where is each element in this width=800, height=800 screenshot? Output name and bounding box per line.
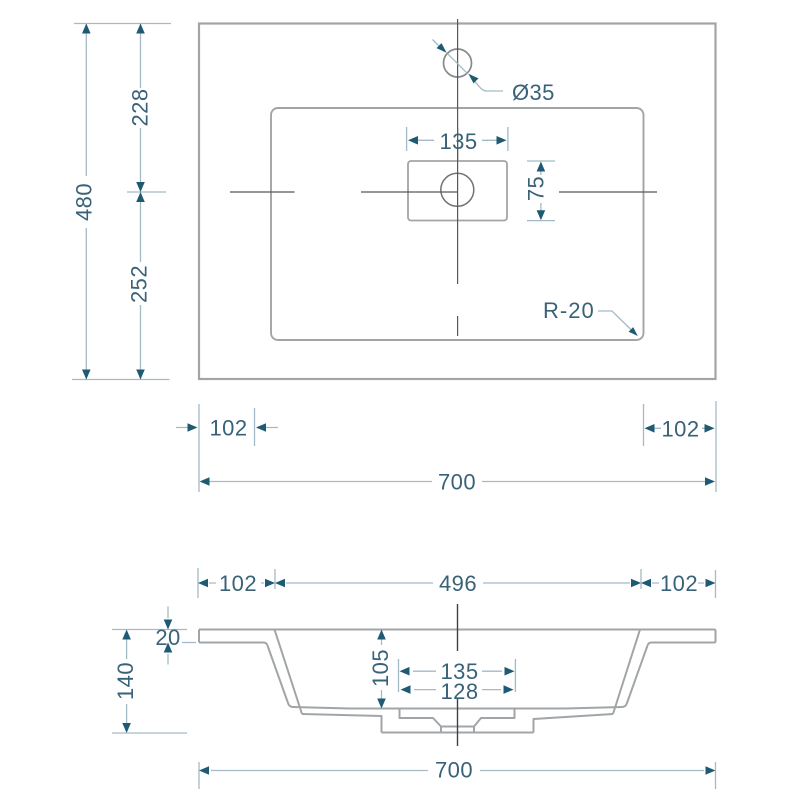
svg-text:135: 135 — [440, 129, 478, 154]
dim line 102 left (top view) — [176, 427, 278, 429]
dim line 20 — [167, 607, 169, 665]
svg-text:20: 20 — [155, 625, 180, 650]
interior bottom — [293, 707, 623, 709]
extension line bottom of top view — [72, 379, 170, 381]
arrows 75 — [537, 162, 546, 172]
arrows 135 top view — [408, 136, 418, 145]
svg-text:102: 102 — [662, 417, 700, 442]
extensions bottom 700 — [199, 762, 716, 789]
svg-text:140: 140 — [113, 662, 138, 700]
dimension graphics — [72, 24, 716, 493]
dim 75 extension ticks — [527, 161, 555, 221]
dim 135 extension lines (top view) — [407, 127, 508, 151]
dim line 700 (section) — [211, 770, 704, 772]
arrows 20 — [164, 620, 173, 630]
extension x=199 below rect — [198, 404, 200, 492]
bowtie at 641 — [631, 579, 641, 588]
exterior wall slant left — [275, 630, 303, 715]
svg-text:105: 105 — [368, 649, 393, 687]
drain recess rectangle — [408, 161, 507, 221]
svg-text:480: 480 — [72, 183, 97, 221]
dim line 135 (top view) — [411, 139, 504, 141]
dim line 102 right (top view) — [648, 427, 712, 429]
dim 135 extensions (section) — [399, 659, 516, 692]
inner bowl rounded rectangle — [271, 108, 644, 340]
dim line 252 — [140, 192, 142, 380]
svg-text:252: 252 — [127, 265, 152, 303]
under-rim left — [199, 643, 268, 646]
outer basin rectangle (top view) — [199, 24, 716, 380]
arrows 700 section — [199, 766, 209, 775]
arrows 228 — [136, 24, 145, 34]
under-rim right — [648, 643, 716, 646]
dim line 75 — [540, 165, 542, 217]
dim line 228 — [140, 24, 142, 193]
svg-text:75: 75 — [524, 176, 549, 201]
svg-text:Ø35: Ø35 — [512, 80, 555, 105]
arrows 135 section — [400, 667, 410, 676]
svg-text:102: 102 — [660, 571, 698, 596]
dim line 496 — [286, 582, 630, 584]
svg-text:102: 102 — [219, 571, 257, 596]
extension bottom-left (y=733) — [112, 732, 187, 734]
vertical centerline (top view) — [457, 19, 459, 336]
svg-text:700: 700 — [435, 758, 473, 783]
extension line top (y=23.5) — [74, 23, 171, 25]
centerline (section) — [457, 604, 459, 746]
arrows faucet leader — [437, 43, 447, 53]
arrow 102L section left — [198, 579, 208, 588]
extension x=643.5 — [643, 404, 645, 446]
extension x=716 — [715, 401, 717, 492]
arrows 102 right top view (inside pointing out) — [645, 424, 655, 433]
exterior bottom — [382, 732, 534, 734]
svg-text:496: 496 — [439, 571, 477, 596]
arrows 140 — [122, 630, 131, 640]
arrows 480 — [82, 24, 91, 34]
dim line 135 (section) — [413, 670, 502, 672]
right rim edge — [715, 630, 717, 643]
leader line for faucet hole — [433, 40, 504, 92]
leader line R-20 — [598, 311, 635, 334]
extension top-left (y=629.5) — [112, 629, 187, 631]
dim line 102 right (section) — [652, 582, 704, 584]
svg-text:R-20: R-20 — [543, 298, 595, 323]
interior wall slant right — [623, 646, 648, 708]
arrow R-20 — [629, 327, 638, 336]
drain recess left step — [400, 709, 442, 727]
arrows 128 section — [401, 685, 411, 694]
faucet hole circle — [444, 49, 472, 77]
arrows 102 left top view (outside pointing in) — [188, 423, 198, 432]
dim line 480 — [85, 24, 87, 380]
extension tick y=642.5 — [182, 642, 196, 644]
svg-text:102: 102 — [210, 416, 248, 441]
arrows 700 top view — [200, 477, 210, 486]
dim line 128 (section) — [414, 689, 501, 691]
dim line 700 (top view) — [202, 481, 713, 483]
exterior wall slant right — [613, 630, 640, 715]
dim line 102 left (section) — [209, 582, 264, 584]
arrows 252 — [136, 192, 145, 202]
svg-text:128: 128 — [441, 679, 479, 704]
bowtie at 275 — [265, 579, 275, 588]
svg-text:700: 700 — [438, 470, 476, 495]
centerline over 135 text — [457, 128, 459, 160]
arrows 105 — [377, 630, 386, 640]
extension tick at centerline — [127, 191, 166, 193]
exterior underside right — [534, 714, 614, 733]
arrow 102R section right — [706, 579, 716, 588]
drain stub — [441, 727, 474, 733]
dim line 140 — [126, 634, 128, 728]
section dim row extension ticks — [198, 568, 716, 598]
horizontal centerline (top view) — [230, 191, 657, 193]
extension x=254.5 — [254, 408, 256, 446]
dim line 105 — [381, 634, 383, 704]
rim top surface — [199, 629, 716, 631]
svg-text:228: 228 — [128, 89, 153, 127]
exterior underside left — [302, 714, 382, 733]
left rim edge — [198, 630, 200, 643]
interior wall slant left — [268, 646, 293, 708]
drain hole circle — [441, 173, 474, 206]
drain recess right step — [474, 709, 515, 727]
